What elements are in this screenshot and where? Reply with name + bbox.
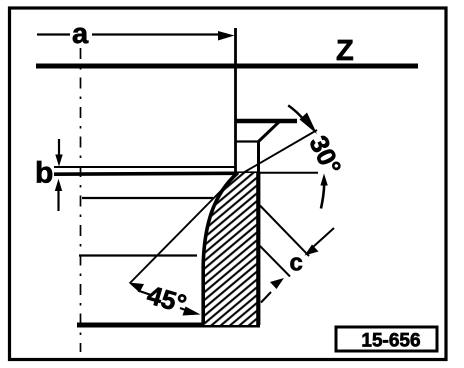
seat edge vertical line xyxy=(234,28,237,173)
svg-text:Z: Z xyxy=(336,35,354,67)
step lower horizontal xyxy=(236,140,259,142)
svg-text:15-656: 15-656 xyxy=(361,331,420,352)
b lower arrow xyxy=(55,179,62,211)
45 degree label leader: left arrowhead xyxy=(129,283,145,293)
label 45deg xyxy=(144,279,190,319)
b upper thin line xyxy=(54,166,235,168)
svg-text:a: a xyxy=(72,18,89,50)
30 degree chamfer line xyxy=(242,130,317,174)
svg-text:c: c xyxy=(290,250,303,277)
45 degree label leader: right arrowhead xyxy=(180,307,201,316)
dimension line a xyxy=(37,31,235,41)
30 degree dimension arc with arrowhead xyxy=(288,105,317,134)
30 degree reference arrow (up) xyxy=(320,174,327,209)
valve guide centre line xyxy=(80,48,82,352)
c dimension upper leader with arrowhead xyxy=(305,228,335,256)
c dimension lower leader with arrowhead xyxy=(261,278,284,303)
step chamfer diagonal xyxy=(259,121,281,142)
svg-text:b: b xyxy=(35,157,53,190)
label 30deg xyxy=(303,131,347,179)
port wall line 1 xyxy=(82,197,213,199)
seat face lower extension line xyxy=(260,246,290,277)
port wall line 2 xyxy=(79,254,197,256)
hatched seat insert section xyxy=(203,172,259,325)
upper step thick line xyxy=(236,119,297,124)
figure number box 15-656 xyxy=(336,327,437,352)
reference line right of seat xyxy=(259,172,318,174)
45 degree seat face line xyxy=(130,174,238,284)
seat face upper extension line xyxy=(260,206,309,257)
b lower thick line / seat top xyxy=(54,173,260,174)
b upper arrow xyxy=(55,139,62,167)
cylinder head surface line Z (thick) xyxy=(36,64,418,69)
bottom thick line xyxy=(77,323,260,328)
seat insert left curve xyxy=(203,173,238,325)
step vertical xyxy=(257,141,260,175)
seat insert right edge xyxy=(256,172,260,325)
